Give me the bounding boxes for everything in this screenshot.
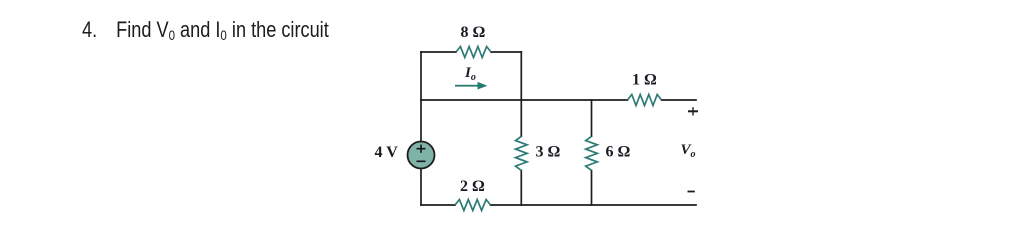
source plus sign — [417, 145, 426, 153]
terminal minus sign — [688, 191, 695, 193]
svg-text:3 Ω: 3 Ω — [536, 144, 561, 161]
svg-text:8 Ω: 8 Ω — [461, 24, 486, 41]
resistor 8-ohm zigzag — [456, 47, 491, 58]
svg-text:6 Ω: 6 Ω — [606, 144, 631, 161]
source minus sign — [417, 160, 426, 162]
voltage source 4V circle — [408, 142, 435, 169]
wire right branch lower (x=521) — [520, 170, 522, 205]
wire 6-ohm branch upper — [591, 100, 593, 136]
wire left rail lower — [420, 169, 422, 206]
terminal plus sign — [688, 107, 698, 115]
resistor 6-ohm zigzag — [586, 136, 598, 170]
current arrow Io — [455, 82, 487, 90]
wire 6-ohm branch lower — [591, 170, 593, 205]
svg-text:2 Ω: 2 Ω — [460, 178, 485, 195]
resistor 3-ohm zigzag — [516, 136, 528, 170]
svg-text:Vo: Vo — [681, 142, 696, 160]
resistor 1-ohm zigzag — [628, 95, 662, 106]
wire right branch upper (x=521) — [520, 52, 522, 136]
wire bottom-right segment — [491, 204, 697, 206]
wire top-left segment — [421, 51, 456, 53]
wire top-right segment — [491, 51, 521, 53]
svg-text:4 V: 4 V — [375, 144, 399, 161]
svg-text:Io: Io — [464, 65, 476, 83]
svg-text:1 Ω: 1 Ω — [632, 71, 657, 88]
title text — [82, 17, 329, 43]
wire middle right of 1-ohm — [662, 99, 697, 101]
resistor 2-ohm zigzag — [455, 200, 491, 211]
wire left rail upper — [420, 52, 422, 142]
wire bottom-left segment — [421, 204, 455, 206]
wire middle horizontal — [421, 99, 628, 101]
